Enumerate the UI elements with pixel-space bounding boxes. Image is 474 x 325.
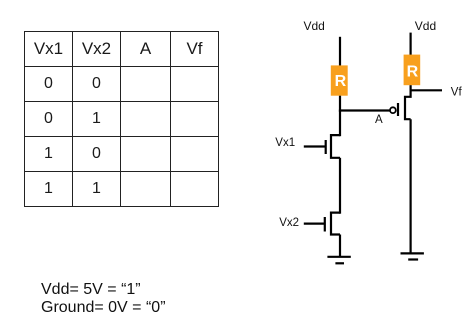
- svg-text:Vx1: Vx1: [275, 137, 295, 149]
- svg-text:Vdd: Vdd: [415, 19, 436, 33]
- ground (left): [327, 257, 350, 264]
- transistor Q2 (gate Vx2): [325, 213, 340, 235]
- transistor Q3 (inverter, gate from node A): [398, 90, 411, 119]
- wire Q1 source to Q2 drain: [339, 158, 341, 214]
- svg-text:Vdd: Vdd: [304, 19, 325, 33]
- wire output Vf: [410, 89, 443, 91]
- power label Vdd (right): [415, 19, 436, 33]
- svg-text:Vx2: Vx2: [279, 217, 299, 229]
- wire node A to inverter bubble: [339, 109, 390, 111]
- power label Vdd (left): [304, 19, 325, 33]
- inverter bubble on Q3 gate: [390, 107, 396, 113]
- ground (right): [401, 253, 424, 259]
- wire R2 to Vf junction: [410, 85, 412, 91]
- node A label: [375, 114, 383, 126]
- truth table: [24, 31, 219, 207]
- legend line Vdd: [41, 281, 141, 299]
- input label Vx2: [279, 217, 299, 229]
- resistor R2: [404, 55, 421, 86]
- transistor Q1 (gate Vx1): [326, 135, 340, 158]
- wire Q2 source to ground: [339, 235, 341, 258]
- value label R (R1): [335, 73, 347, 90]
- input label Vx1: [275, 137, 295, 149]
- resistor R1: [331, 65, 348, 95]
- svg-text:A: A: [375, 114, 383, 126]
- wire Vdd to R2: [410, 33, 412, 55]
- svg-text:R: R: [407, 63, 419, 80]
- output label Vf: [451, 87, 463, 99]
- wire Q3 source to ground: [410, 119, 412, 253]
- wire Vdd to R1: [339, 37, 341, 66]
- wire gate Vx1: [304, 145, 326, 147]
- wire node A junction to Q1 drain: [339, 111, 341, 137]
- legend line Ground: [41, 299, 166, 317]
- value label R (R2): [407, 63, 419, 80]
- wire R1 to node A junction: [339, 96, 341, 112]
- svg-text:R: R: [335, 73, 347, 90]
- wire gate Vx2: [304, 223, 325, 225]
- svg-text:Vf: Vf: [451, 87, 463, 99]
